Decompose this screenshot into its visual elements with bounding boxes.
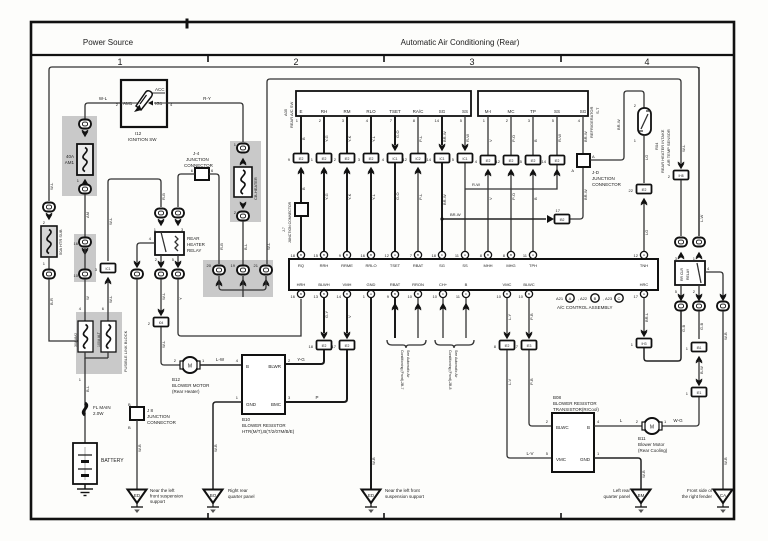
inline connector IB2: [555, 215, 570, 224]
wire SB link: [465, 163, 557, 189]
svg-text:(Rear Heater): (Rear Heater): [172, 389, 200, 394]
label Y-K: [347, 193, 352, 200]
label Y-G: [324, 135, 329, 142]
svg-text:V: V: [347, 315, 352, 318]
inline connector IH3: [637, 339, 652, 348]
svg-text:A: A: [571, 168, 574, 173]
pin 4: [236, 358, 239, 363]
pin circle letters bottom: [300, 292, 645, 296]
column number 4: [644, 57, 649, 67]
pin A: [592, 154, 595, 159]
svg-text:R-Y: R-Y: [203, 96, 211, 101]
label L-W: [216, 357, 225, 362]
label B: [533, 197, 538, 200]
pin 10: [74, 273, 79, 278]
arrow up: [530, 169, 537, 177]
svg-text:IE2: IE2: [555, 159, 560, 163]
svg-text:See Automatic Air: See Automatic Air: [454, 350, 458, 378]
pin 5: [675, 289, 678, 294]
arrow down: [344, 332, 351, 340]
svg-text:REAR: REAR: [187, 236, 200, 241]
battery: [73, 443, 97, 484]
svg-text:12: 12: [496, 159, 501, 164]
pin 21: [254, 263, 259, 268]
arrow up: [463, 303, 470, 311]
svg-text:B: B: [300, 292, 302, 296]
svg-text:J 8: J 8: [147, 408, 154, 413]
svg-text:A/C CONTROL ASSEMBLY: A/C CONTROL ASSEMBLY: [557, 305, 613, 310]
junction connector J-D: [577, 154, 590, 167]
pin 5: [452, 157, 455, 162]
wire relay out to I04: [160, 279, 162, 312]
label ground location: [385, 488, 425, 499]
svg-text:BMC: BMC: [271, 402, 282, 407]
svg-text:100A ALT: 100A ALT: [97, 331, 101, 347]
svg-text:L-V: L-V: [526, 451, 533, 456]
svg-text:17: 17: [332, 344, 337, 349]
svg-text:Y-G: Y-G: [324, 135, 329, 142]
fuse HTR SUB 50A: [41, 226, 57, 257]
svg-text:REAR A/C SW: REAR A/C SW: [289, 102, 294, 128]
svg-text:Y-K: Y-K: [347, 193, 352, 200]
wire to BLWR: [285, 350, 324, 364]
wire: [680, 180, 682, 236]
label ground location: [603, 488, 630, 499]
svg-text:B: B: [465, 282, 468, 287]
label L-W: [699, 214, 704, 222]
svg-text:REFRIGERATOR: REFRIGERATOR: [589, 106, 594, 138]
label W-L: [161, 340, 166, 348]
inline connector TP: [526, 156, 541, 165]
svg-text:B: B: [301, 187, 306, 190]
svg-text:TRANSISTOR(RrCool): TRANSISTOR(RrCool): [553, 407, 599, 412]
svg-text:10: 10: [408, 294, 413, 299]
label I12 IGNITION SW: [128, 131, 157, 142]
svg-text:RQ: RQ: [298, 263, 304, 268]
label L-V: [507, 378, 512, 385]
svg-text:M-I: M-I: [485, 109, 492, 114]
battery ground: [77, 484, 93, 496]
label G-O: [395, 192, 400, 200]
label Y-L: [371, 193, 376, 200]
node connector: [237, 144, 249, 153]
pin 1: [202, 358, 205, 363]
label P-L: [418, 193, 423, 200]
label W-L: [99, 96, 108, 101]
node connector: [260, 266, 272, 275]
wire: [107, 281, 109, 321]
wire: [698, 360, 700, 381]
connector letters: [556, 294, 623, 302]
label Y-L: [371, 135, 376, 142]
svg-text:VMC: VMC: [556, 457, 567, 462]
bottom pin circles: [297, 290, 647, 297]
svg-text:Y: Y: [178, 297, 183, 300]
wire ignition feed W-L: [85, 103, 121, 119]
pin names box B: [485, 109, 587, 114]
svg-text:13: 13: [314, 294, 319, 299]
svg-text:A: A: [532, 253, 534, 257]
svg-text:RH: RH: [321, 109, 328, 114]
arrow below connector: [46, 213, 53, 221]
pin 1: [693, 256, 696, 261]
node connector: [693, 302, 705, 311]
node connector: [237, 212, 249, 221]
svg-text:12: 12: [634, 253, 639, 258]
svg-text:W-L: W-L: [49, 182, 54, 190]
pin numbers box B: [483, 118, 581, 123]
svg-text:10: 10: [497, 294, 502, 299]
svg-text:B: B: [246, 364, 249, 369]
svg-text:R-W: R-W: [465, 134, 470, 142]
pin 2: [634, 103, 637, 108]
svg-text:JUNCTION: JUNCTION: [592, 176, 615, 181]
title Automatic Air Conditioning (Rear): [401, 38, 520, 47]
inline connector RH: [317, 154, 332, 163]
pin 4: [149, 236, 152, 241]
label W-L: [161, 292, 166, 300]
svg-text:B: B: [346, 253, 348, 257]
svg-text:CH+: CH+: [439, 282, 448, 287]
svg-text:16: 16: [74, 241, 79, 246]
svg-text:BLWR: BLWR: [268, 364, 281, 369]
label B-L: [85, 385, 90, 392]
svg-text:IC1: IC1: [463, 157, 468, 161]
arrow up: [368, 167, 375, 175]
svg-text:R-W: R-W: [557, 134, 562, 142]
svg-text:A: A: [592, 154, 595, 159]
svg-text:J-7: J-7: [282, 227, 286, 232]
wire HRC to relay: [644, 310, 681, 361]
svg-text:CONNECTOR: CONNECTOR: [147, 420, 177, 425]
svg-text:RLO: RLO: [366, 109, 376, 114]
wire to J8: [136, 279, 138, 407]
wire M-I column: [487, 116, 489, 251]
svg-text:15: 15: [314, 253, 319, 258]
svg-text:18: 18: [291, 253, 296, 258]
svg-text:IE2: IE2: [505, 344, 510, 348]
pin 2: [636, 419, 639, 424]
pin names: [246, 364, 282, 407]
pin 2: [693, 289, 696, 294]
svg-text:SG: SG: [580, 109, 587, 114]
svg-text:, A23: , A23: [603, 296, 613, 301]
svg-text:B11: B11: [638, 436, 646, 441]
svg-text:A05: A05: [283, 108, 288, 116]
svg-text:RRME: RRME: [341, 263, 353, 268]
pin 1: [686, 346, 689, 351]
label V: [488, 139, 493, 142]
label BR-W: [450, 212, 461, 217]
label Y-G: [297, 357, 305, 362]
svg-text:E: E: [299, 109, 302, 114]
svg-text:A: A: [394, 253, 396, 257]
svg-text:JUNCTION: JUNCTION: [147, 414, 170, 419]
node connector: [155, 270, 167, 279]
label HTR SUB: [58, 229, 63, 255]
svg-text:B: B: [417, 253, 419, 257]
pin 1: [43, 261, 46, 266]
svg-text:B: B: [323, 253, 325, 257]
label FL MAIN 2.0W: [93, 405, 111, 416]
label W-L: [108, 295, 113, 303]
label G-B: [681, 325, 686, 332]
arrow up: [696, 356, 703, 364]
pin circle letters top: [300, 253, 645, 257]
svg-text:R-W: R-W: [472, 182, 480, 187]
svg-text:Y-G: Y-G: [324, 193, 329, 200]
svg-text:B-L: B-L: [243, 243, 248, 250]
svg-text:4: 4: [644, 57, 649, 67]
svg-text:IE2: IE2: [345, 344, 350, 348]
svg-text:See Automatic Air: See Automatic Air: [406, 350, 410, 378]
svg-text:GND: GND: [246, 402, 257, 407]
svg-text:BLOWER RESISTOR: BLOWER RESISTOR: [553, 401, 597, 406]
svg-text:IE2: IE2: [369, 157, 374, 161]
arrow down: [158, 309, 165, 317]
svg-text:W-L: W-L: [108, 217, 113, 225]
svg-text:HRH: HRH: [297, 282, 306, 287]
svg-text:B08: B08: [553, 395, 562, 400]
wire to VMC pin: [507, 350, 552, 458]
shade triple connector row: [203, 260, 273, 297]
wire GND to BO ground: [213, 402, 242, 489]
sensor R04 rear heater intake air temp: [638, 108, 651, 135]
pin 19: [231, 263, 236, 268]
node connector: [172, 270, 184, 279]
pin 9: [288, 157, 291, 162]
wire: [84, 194, 86, 237]
brace pair 2: [435, 340, 474, 348]
svg-text:A: A: [643, 292, 645, 296]
svg-text:G-O: G-O: [395, 130, 400, 138]
label R-B: [219, 243, 224, 250]
arrow up: [641, 198, 648, 206]
svg-text:Near the left front: Near the left front: [385, 488, 421, 493]
svg-text:IE2: IE2: [345, 157, 350, 161]
svg-text:W-B: W-B: [137, 444, 142, 452]
svg-text:IC1: IC1: [440, 157, 445, 161]
svg-text:BR-W: BR-W: [616, 119, 621, 130]
svg-text:IB2: IB2: [560, 218, 565, 222]
label ground location: [150, 488, 184, 504]
svg-text:19: 19: [231, 263, 236, 268]
wire E column: [300, 116, 302, 251]
svg-text:RM: RM: [344, 109, 351, 114]
wire J-4 left branch: [178, 174, 195, 207]
svg-text:V: V: [488, 197, 493, 200]
svg-text:ED: ED: [368, 493, 375, 498]
pin 12: [403, 157, 408, 162]
column ticks bottom: [208, 513, 561, 519]
relay REAR HEATER RELAY: [155, 232, 184, 255]
pin 2: [546, 419, 549, 424]
svg-text:Blower Motor: Blower Motor: [638, 442, 665, 447]
box A/C control assembly: [289, 259, 658, 290]
svg-text:3: 3: [469, 57, 474, 67]
svg-text:BLWC: BLWC: [556, 425, 569, 430]
label J 8 JUNCTION CONNECTOR: [147, 408, 177, 425]
svg-text:W-L: W-L: [99, 96, 108, 101]
svg-text:L-Y: L-Y: [507, 313, 512, 320]
node connector: [131, 270, 143, 279]
arrow up: [216, 279, 223, 287]
pin 12: [496, 159, 501, 164]
svg-text:Y-L: Y-L: [371, 135, 376, 142]
svg-text:15: 15: [518, 159, 523, 164]
inline connector SG: [435, 154, 450, 163]
wire B to motor: [594, 425, 643, 427]
svg-text:IE3: IE3: [527, 344, 532, 348]
arrow: [82, 130, 89, 138]
pin 2: [155, 257, 158, 262]
label BR-W: [583, 189, 588, 200]
node connector: [213, 266, 225, 275]
shade fusible link block: [76, 312, 122, 374]
wire joining bus: [219, 276, 266, 297]
arrow up: [678, 252, 685, 260]
wire relay to HRH: [178, 279, 301, 336]
pin 2: [148, 321, 151, 326]
svg-text:M: M: [650, 425, 654, 431]
ground ED left: [128, 490, 147, 514]
wire down-right to fusible link block: [49, 279, 79, 341]
arrow down: [240, 202, 247, 210]
svg-text:I12: I12: [135, 131, 142, 136]
svg-text:G-B: G-B: [699, 323, 704, 330]
svg-text:17: 17: [634, 294, 639, 299]
label 30A AM2: [74, 333, 78, 347]
label LG: [644, 230, 649, 235]
motor B11 blower motor rear cooling: [642, 418, 662, 434]
svg-text:IE2: IE2: [322, 344, 327, 348]
svg-text:AM: AM: [85, 212, 90, 218]
label L-Y: [507, 313, 512, 320]
svg-text:REAR HEATER INTAKE: REAR HEATER INTAKE: [660, 129, 665, 173]
pin numbers box A: [296, 118, 463, 123]
pin 6: [191, 168, 194, 173]
svg-text:18: 18: [432, 253, 437, 258]
svg-text:W-B: W-B: [723, 457, 728, 465]
pin 4: [597, 419, 600, 424]
pin 1: [77, 178, 80, 183]
svg-text:MHH: MHH: [483, 263, 492, 268]
label B12 BLOWER MOTOR (Rear Heater): [172, 377, 210, 394]
wire RLO column: [370, 116, 372, 251]
arrow up: [392, 303, 399, 311]
pin 1: [597, 451, 600, 456]
svg-text:AIR TEMP SENSOR: AIR TEMP SENSOR: [666, 129, 671, 166]
label W-B: [641, 470, 646, 478]
svg-text:B: B: [528, 292, 530, 296]
svg-text:Automatic Air Conditioning (Re: Automatic Air Conditioning (Rear): [401, 38, 520, 47]
svg-text:B12: B12: [172, 377, 181, 382]
pin 16: [74, 241, 79, 246]
svg-text:BM: BM: [638, 493, 645, 498]
inline connector E: [294, 154, 309, 163]
wire CH+ down: [442, 298, 444, 338]
svg-text:G-O: G-O: [395, 192, 400, 200]
svg-text:B: B: [506, 292, 508, 296]
column number 3: [469, 57, 474, 67]
svg-text:M: M: [188, 364, 192, 370]
arrow up: [298, 167, 305, 175]
svg-text:B: B: [587, 425, 590, 430]
label R-W: [472, 182, 480, 187]
svg-text:S-T: S-T: [595, 107, 600, 114]
svg-text:(Rear Cooling): (Rear Cooling): [638, 448, 668, 453]
pin 1: [236, 395, 239, 400]
svg-text:P: P: [315, 395, 318, 400]
svg-text:12: 12: [385, 253, 390, 258]
svg-text:IB1: IB1: [697, 346, 702, 350]
label R04 REAR HEATER INTAKE AIR TEMP SENSOR: [654, 129, 671, 173]
wire relay coil to J8 ground: [137, 243, 155, 262]
arrow right: [547, 215, 554, 223]
svg-text:IE2: IE2: [509, 159, 514, 163]
wire: [48, 257, 50, 269]
pin 1: [664, 419, 667, 424]
svg-text:B: B: [487, 253, 489, 257]
svg-text:JUNCTION: JUNCTION: [186, 157, 209, 162]
label LG: [644, 155, 649, 160]
inline connector IE3: [522, 341, 537, 350]
wire TP column: [532, 116, 534, 251]
svg-text:Near the left: Near the left: [150, 488, 175, 493]
svg-text:Front side of: Front side of: [687, 488, 713, 493]
label Y-K: [347, 135, 352, 142]
svg-text:W-L: W-L: [108, 295, 113, 303]
pin 7: [516, 344, 519, 349]
node connector: [79, 120, 91, 129]
label ground location: [682, 488, 713, 499]
svg-text:21: 21: [254, 263, 259, 268]
wire block to battery: [84, 358, 86, 443]
junction connector J-4: [195, 168, 209, 180]
arrow down: [504, 332, 511, 340]
arrow down: [392, 144, 399, 152]
label P-B: [529, 378, 534, 385]
label P-B: [529, 313, 534, 320]
svg-text:the right fender: the right fender: [682, 494, 713, 499]
svg-text:14: 14: [337, 294, 342, 299]
svg-text:BLOWER RESISTOR: BLOWER RESISTOR: [242, 423, 286, 428]
label B: [301, 137, 306, 140]
svg-text:20: 20: [207, 263, 212, 268]
fusible link FL MAIN: [83, 403, 86, 415]
inline connector SS: [458, 154, 473, 163]
node connector: [675, 238, 687, 247]
inline connector IE1: [692, 388, 707, 397]
label V: [347, 315, 352, 318]
pin 15: [518, 159, 523, 164]
wire relay pin4 to ground drop: [705, 272, 723, 296]
arrow up: [344, 167, 351, 175]
svg-text:B: B: [300, 253, 302, 257]
svg-text:P-O: P-O: [511, 193, 516, 200]
inline connector IE2: [340, 341, 355, 350]
resistor B10 blower resistor: [242, 355, 285, 414]
svg-text:W-B: W-B: [723, 332, 728, 340]
svg-text:IE2: IE2: [642, 188, 647, 192]
wire J-4 right branch: [209, 174, 219, 264]
arrow up: [105, 277, 112, 285]
label ground location: [228, 488, 255, 499]
svg-text:2.0W: 2.0W: [93, 411, 104, 416]
svg-text:W-L: W-L: [161, 292, 166, 300]
wire to blower motor: [161, 327, 182, 365]
svg-text:RELAY: RELAY: [187, 248, 201, 253]
